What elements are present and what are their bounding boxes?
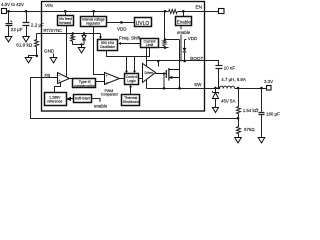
ground below C1 [5,37,12,42]
block soft-start [74,95,92,103]
capacitor output 180uF polarity mark [256,109,258,110]
block 1.288V reference [45,93,67,106]
node VDD tap [120,21,123,24]
wire reference to error amp [55,83,61,93]
capacitor output 180uF [261,89,263,112]
node FB tap [237,117,240,120]
diode catch 45V 5A schottky [215,89,217,93]
wire output rail [235,88,267,90]
svg-text:1.54 kΩ: 1.54 kΩ [243,108,259,113]
resistor R1 1.54k [237,89,241,119]
wire clock arrow into logic [126,57,128,72]
node output cap tap [260,87,263,90]
node divider tap [237,87,240,90]
svg-text:22 µF: 22 µF [11,27,23,32]
op-amp PWM comparator [105,73,120,85]
ground internal RT [78,48,85,53]
op-amp gate driver [143,64,156,83]
wire GND stub [53,54,55,58]
ground R2 [235,138,242,143]
wire BOOT external to bootstrap cap [205,61,219,66]
svg-text:enable: enable [94,104,108,109]
node regulator tap [93,10,96,13]
svg-text:EN: EN [196,5,202,10]
svg-text:976Ω: 976Ω [244,127,255,132]
wire stub to regulator [93,12,95,17]
svg-text:61.9 kΩ: 61.9 kΩ [16,43,33,48]
resistor current sense [163,40,166,48]
svg-text:500 kHz: 500 kHz [101,41,114,45]
wire freq shift from current limit to oscillator with arrow [121,43,141,45]
wire gate reference to SW [163,74,165,89]
wire VIN input rail [7,11,43,13]
wire soft-start to reference with arrow [71,98,74,100]
wire SW rail [147,88,205,90]
wire current limit arrow into logic [134,57,136,72]
wire SW external [205,88,220,90]
ground catch diode [213,108,219,113]
node FET channel to SW [163,87,166,90]
wire stub to feed-forward [65,12,67,16]
svg-text:VIN: VIN [45,3,53,8]
wire VDD tick [185,39,187,41]
wire current limit sense [159,47,169,49]
node gate wire to SW tie [163,72,165,74]
resistor EN pull-up [169,10,178,14]
node catch diode junction [214,87,217,90]
capacitor C1 22uF [6,12,13,37]
block UVLO [135,18,152,27]
svg-text:Driver: Driver [145,71,154,75]
svg-text:Shutdown: Shutdown [123,100,139,104]
wire internal VIN rail right part [178,11,205,13]
wire oscillator to logic [107,48,150,57]
svg-text:+: + [58,79,60,83]
svg-text:4.5V to 42V: 4.5V to 42V [1,2,24,7]
wire sense drop [164,12,166,40]
block internal voltage regulator [81,17,107,27]
svg-text:VDD: VDD [117,27,127,32]
wire enable stub down [180,26,182,30]
svg-text:−: − [106,80,109,85]
block thermal shutdown [122,95,140,106]
block current limit [141,39,159,48]
svg-text:Logic: Logic [127,79,136,83]
block control logic [125,74,139,85]
wire ramp from regulator to PWM comparator [94,27,105,75]
svg-text:forward: forward [59,21,71,25]
node C2 junction [25,10,28,13]
block type III compensation [73,79,96,88]
svg-text:45V 5A: 45V 5A [221,98,235,103]
op-amp IC boundary U1 [42,2,205,112]
transistor Q1 power FET [156,68,180,81]
svg-text:Oscillator: Oscillator [100,45,116,49]
svg-text:BOOT: BOOT [190,56,203,61]
svg-text:compensation: compensation [74,84,96,88]
wire to internal ground [81,45,83,48]
node driver supply tap [157,60,160,63]
svg-text:3.3V: 3.3V [264,79,273,84]
block oscillator 500kHz [98,40,118,51]
inductor L1 [220,86,235,88]
node sense tap on rail [164,10,167,13]
svg-text:VDD: VDD [188,36,198,41]
svg-text:Soft-Start: Soft-Start [75,97,90,101]
node enable tap [182,10,185,13]
diode VDD to BOOT [184,40,186,48]
capacitor bootstrap 10nF [216,65,223,67]
wire internal VIN rail [43,11,169,13]
wire logic to driver [139,78,143,80]
wire error amp to compensation [70,78,73,80]
wire FET drain-source vertical [179,40,181,89]
ground output cap [258,138,265,143]
wire RT/SYNC [37,33,101,35]
svg-text:10 nF: 10 nF [224,65,236,70]
resistor internal RT [72,32,75,35]
svg-text:180 µF: 180 µF [266,112,280,117]
wire driver supply stub [158,61,160,67]
wire FB to error amp [43,77,58,79]
node feed-forward tap [64,10,67,13]
svg-text:regulator: regulator [86,22,101,26]
wire EN out [205,11,219,13]
wire RT resistor to ground [29,49,37,58]
wire enable net down to boot [180,35,182,62]
terminal VIN input [2,9,7,14]
wire thermal shutdown arrow up [130,87,132,94]
svg-text:Freq. Shift: Freq. Shift [119,36,141,41]
wire output stage left edge [146,48,148,89]
capacitor C2 2.2uF [23,12,30,37]
wire RT into oscillator with arrow [100,34,102,37]
svg-text:+: + [106,74,108,78]
svg-text:SW: SW [194,82,202,87]
wire VDD from regulator to UVLO [107,22,135,24]
svg-text:enable: enable [177,30,191,35]
svg-text:reference: reference [47,100,62,104]
node bootstrap to SW [218,87,221,90]
block Enable [176,17,192,26]
wire soft-start enable stub [92,99,101,103]
ground GND pin [50,58,57,63]
wire compensation to PWM comparator [96,81,105,83]
ground RT resistor [25,58,32,63]
svg-text:UVLO: UVLO [136,21,150,27]
node sense bottom [164,46,167,49]
wire BOOT rail [147,60,205,62]
svg-text:RT/SYNC: RT/SYNC [44,28,63,33]
svg-text:Comparator: Comparator [101,93,119,97]
capacitor C1 22uF polarity mark [10,21,12,22]
node C1 junction [7,10,10,13]
resistor R2 976 [237,119,241,138]
node sense top [164,38,167,41]
wire FB external return path [31,78,239,119]
op-amp error amplifier [58,73,70,84]
wire PWM output to logic [120,78,125,80]
svg-text:4.7 µH, 8.8A: 4.7 µH, 8.8A [221,77,246,82]
node RT resistor bottom [36,55,39,58]
terminal EN [219,9,225,14]
wire stub to Enable block [183,12,185,17]
wire sense to drain vertical [165,39,180,41]
svg-text:Enable: Enable [177,20,192,25]
node FET source to SW [178,87,181,90]
diode internal RT clamp [83,32,86,35]
ground below C2 [23,37,30,42]
node diode to BOOT junction [183,60,186,63]
resistor RT 61.9k external [35,34,39,49]
svg-text:Limit: Limit [146,43,154,47]
node internal RT ground [80,43,82,45]
wire internal RT bottom join [73,44,85,46]
wire ramp from feed forward [66,26,68,78]
terminal 3.3V output [267,86,272,91]
block Vin feed forward [58,16,74,26]
svg-text:GND: GND [44,48,55,53]
